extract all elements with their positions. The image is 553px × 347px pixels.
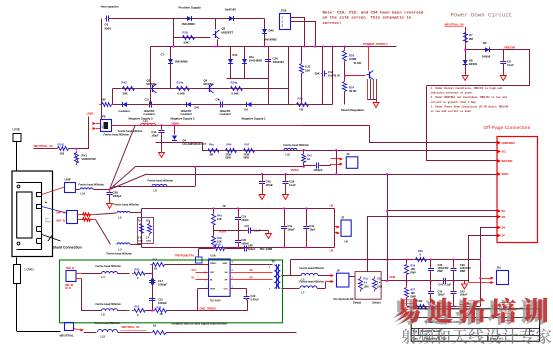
svg-text:U6: U6 [345,240,349,244]
svg-text:Shunt Connection: Shunt Connection [53,246,82,250]
svg-text:100nF: 100nF [460,294,468,297]
svg-text:LINE: LINE [13,128,21,132]
svg-text:GND: GND [223,263,228,265]
svg-text:Ferrite bead 600ohm: Ferrite bead 600ohm [300,280,325,283]
svg-text:LINE: LINE [87,112,94,116]
svg-text:25K: 25K [315,72,320,76]
svg-text:DNP: DNP [460,270,466,273]
svg-text:is low and current is back: is low and current is back [431,109,472,113]
svg-text:NEUTRAL: NEUTRAL [60,334,74,338]
svg-text:D4: D4 [245,108,249,112]
svg-text:1. Under Normal Conditions, MD: 1. Under Normal Conditions, MD8/D# is hi… [431,86,503,90]
svg-text:0.1uF: 0.1uF [289,183,296,187]
svg-text:Negative Supply 3: Negative Supply 3 [129,116,154,120]
svg-text:Isolated Sensor and signal tra: Isolated Sensor and signal transformer [172,322,229,326]
svg-text:D2: D2 [483,41,487,45]
svg-text:100pF: 100pF [288,229,296,232]
svg-text:SH: SH [250,270,254,272]
svg-text:R33: R33 [135,268,140,272]
svg-text:DNP: DNP [438,270,444,273]
svg-text:C4a: C4a [328,70,334,74]
svg-text:1N4148WS: 1N4148WS [175,60,189,64]
svg-text:C42: C42 [251,294,256,298]
svg-text:TM/DC: TM/DC [210,263,217,265]
svg-text:Ferrite bead 600ohm: Ferrite bead 600ohm [96,264,122,268]
svg-text:insulated: insulated [220,113,231,116]
svg-text:TL431: TL431 [354,61,363,65]
svg-text:R44: R44 [227,143,232,147]
svg-text:VDPA: VDPA [502,172,509,176]
svg-text:R44: R44 [153,259,158,262]
svg-text:100nF: 100nF [241,218,249,222]
svg-text:3. Under Power Down Conditions: 3. Under Power Down Conditions (M_IN dow… [431,104,509,108]
svg-text:36.3K: 36.3K [349,89,356,93]
svg-text:0.048: 0.048 [232,92,239,96]
svg-text:50K: 50K [184,41,189,45]
svg-text:Power Down Circuit: Power Down Circuit [451,12,512,19]
svg-text:BZX84: BZX84 [469,62,478,66]
svg-text:D13: D13 [233,53,238,57]
svg-text:1206: 1206 [377,287,383,289]
svg-text:C4f: C4f [245,225,249,228]
svg-text:TEST: TEST [210,288,216,290]
svg-text:POWER_SUPPLY: POWER_SUPPLY [363,42,388,46]
svg-text:1N4148WS: 1N4148WS [264,38,278,42]
svg-text:INP_N: INP_N [57,211,65,215]
svg-text:Q3: Q3 [147,79,151,83]
svg-text:R36: R36 [418,249,423,253]
svg-text:indicates presence of power: indicates presence of power [431,91,473,95]
svg-text:VDNI5: VDNI5 [172,122,180,126]
svg-text:C19: C19 [241,215,246,219]
svg-text:insulated: insulated [119,110,130,113]
svg-text:NEUTRAL_IN: NEUTRAL_IN [445,23,464,27]
svg-text:D44: D44 [195,107,200,110]
svg-text:Ferrite bead 600ohm: Ferrite bead 600ohm [107,252,133,256]
svg-text:7K: 7K [223,205,226,208]
svg-text:R2b: R2b [146,221,151,223]
svg-text:VCC: VCC [224,288,229,290]
svg-text:BAV99: BAV99 [482,55,491,59]
svg-text:1K: 1K [160,313,163,316]
svg-text:OUT: OUT [210,272,215,274]
svg-text:Q4: Q4 [204,79,208,83]
svg-text:Off-Page Connectors: Off-Page Connectors [484,125,531,130]
svg-text:C39: C39 [289,180,295,184]
svg-text:Ferrite bead 600ohm: Ferrite bead 600ohm [118,130,143,133]
svg-text:Ferrite bead 600ohm: Ferrite bead 600ohm [114,203,140,207]
svg-text:Ferrite bead 600ohm: Ferrite bead 600ohm [96,302,122,306]
svg-text:7.5M: 7.5M [417,299,423,303]
svg-text:2M: 2M [469,37,474,41]
svg-text:10pF: 10pF [310,229,316,232]
svg-text:L10: L10 [286,153,291,157]
svg-text:SH: SH [502,209,506,213]
svg-text:10uF/6.3V: 10uF/6.3V [328,74,340,78]
svg-text:Positive Supply: Positive Supply [179,6,202,10]
svg-text:250V: 250V [105,27,112,31]
svg-text:R19: R19 [298,97,304,101]
svg-text:R18: R18 [183,31,189,35]
svg-text:100nF/6V: 100nF/6V [273,60,285,64]
svg-text:Note: C20, C32, and C34 have b: Note: C20, C32, and C34 have been revers… [323,11,424,16]
svg-text:OUT: OUT [192,270,197,272]
svg-text:Ferrite bead 600ohm: Ferrite bead 600ohm [148,179,174,183]
svg-text:SN: SN [502,226,506,230]
svg-text:10K: 10K [305,69,310,73]
svg-text:100pF: 100pF [248,248,256,251]
svg-text:Size: Size [413,331,418,333]
svg-text:R14a: R14a [177,81,184,85]
svg-text:SH: SH [225,272,228,274]
svg-text:1N4148WS: 1N4148WS [182,22,196,26]
svg-text:J7: J7 [341,216,345,220]
svg-text:1206: 1206 [138,241,144,243]
svg-text:100: 100 [60,152,65,156]
svg-text:J10: J10 [497,266,502,270]
svg-text:Ferrite bead 600ohm: Ferrite bead 600ohm [300,267,325,270]
svg-text:C4b: C4b [216,99,221,102]
svg-text:D4: D4 [183,139,187,143]
svg-text:UHF: UHF [65,178,71,182]
svg-text:0.47uF: 0.47uF [251,298,260,302]
svg-text:C13: C13 [145,99,150,102]
svg-text:VCM: VCM [389,275,396,279]
svg-text:GNDPWR3: GNDPWR3 [502,141,516,145]
svg-text:Ferrite bead 600ohm: Ferrite bead 600ohm [284,143,310,147]
svg-text:100pF: 100pF [151,135,159,138]
svg-text:D4a: D4a [249,55,254,59]
svg-text:INA_N: INA_N [57,219,65,223]
svg-text:Negative Supply 1: Negative Supply 1 [242,116,267,120]
svg-text:R35: R35 [135,305,140,309]
svg-text:R36: R36 [157,307,162,310]
svg-text:Per Optional 2W: Per Optional 2W [334,297,355,301]
svg-text:4mm capacitor: 4mm capacitor [101,5,119,9]
svg-text:INN_N: INN_N [66,266,74,270]
svg-text:Date:: Date: [413,338,419,341]
svg-text:R1a: R1a [364,278,369,281]
svg-text:NC/DNI: NC/DNI [204,82,213,86]
svg-text:on the silk screen. This schem: on the silk screen. This schematic is [323,16,412,21]
svg-text:Shunt Regulator: Shunt Regulator [341,108,365,112]
svg-text:R42: R42 [307,154,312,158]
svg-text:DNP: DNP [411,272,417,275]
svg-text:IN-: IN- [210,280,213,282]
svg-text:C17: C17 [158,279,163,283]
svg-text:Default: Default [373,302,381,305]
svg-text:SCL: SCL [502,150,508,154]
svg-text:30K: 30K [123,92,128,96]
svg-text:10K: 10K [217,217,222,221]
svg-text:1N4148WS: 1N4148WS [249,59,263,63]
svg-text:L14: L14 [81,192,86,196]
svg-text:10uF/16V: 10uF/16V [225,8,237,12]
svg-text:C38: C38 [113,191,119,195]
svg-text:GND_TRNSD: GND_TRNSD [200,306,216,310]
svg-text:3M: 3M [210,153,213,156]
svg-text:1K: 1K [153,324,156,328]
svg-text:R4a: R4a [217,214,222,218]
svg-text:100nF: 100nF [438,294,446,297]
svg-text:NEUTRAL_IN: NEUTRAL_IN [34,144,53,148]
svg-text:C40: C40 [266,180,272,184]
svg-text:IN: IN [192,278,195,280]
svg-text:LOAD: LOAD [25,268,35,272]
svg-text:NC/DNI: NC/DNI [147,82,156,86]
svg-text:1000pF: 1000pF [314,168,323,172]
svg-text:SP: SP [502,234,506,238]
svg-text:U1A: U1A [211,254,216,258]
svg-text:R47: R47 [245,143,250,147]
svg-text:1K: 1K [307,157,310,161]
svg-text:D40: D40 [269,29,275,33]
svg-text:C20: C20 [241,238,246,242]
svg-text:Negative Supply 2: Negative Supply 2 [171,116,196,120]
svg-text:C8: C8 [507,60,511,64]
svg-text:C7: C7 [161,53,165,57]
svg-text:R43: R43 [122,81,128,85]
svg-text:+: + [45,200,48,206]
svg-text:0.1uF: 0.1uF [445,284,452,287]
svg-text:Ferrite bead 600ohm: Ferrite bead 600ohm [79,183,105,187]
svg-text:J700: J700 [281,9,287,13]
svg-text:Ferrite bead 600ohm: Ferrite bead 600ohm [95,321,121,325]
svg-text:C41: C41 [439,284,444,287]
svg-text:0805: 0805 [244,156,250,159]
svg-text:306: 306 [102,99,107,102]
svg-text:L12: L12 [101,335,106,339]
svg-text:VREGIN: VREGIN [504,46,515,50]
svg-text:TP6TPGND TP5: TP6TPGND TP5 [175,254,195,258]
svg-text:DNP: DNP [411,296,417,299]
svg-text:SP: SP [250,278,254,280]
svg-text:L11: L11 [144,120,149,123]
svg-text:R2a: R2a [138,221,143,223]
svg-text:1206: 1206 [364,287,370,289]
svg-text:1K: 1K [154,267,157,271]
svg-text:1000pF: 1000pF [113,194,122,198]
svg-text:U8: U8 [330,204,334,208]
svg-text:HS: HS [300,108,304,112]
svg-text:0805: 0805 [226,156,232,159]
svg-text:correct!: correct! [323,21,342,26]
svg-text:R4a: R4a [209,143,214,147]
svg-text:IN_N: IN_N [65,287,71,290]
svg-text:470uF: 470uF [266,183,274,187]
svg-text:Default: Default [353,302,361,305]
svg-text:R34a: R34a [231,81,238,85]
svg-text:1206: 1206 [146,241,152,243]
svg-text:1000pF: 1000pF [158,301,167,305]
svg-text:VDSA: VDSA [291,168,300,172]
svg-text:MOSFET: MOSFET [222,31,234,35]
svg-text:R4B: R4B [216,244,221,247]
svg-text:T5: T5 [272,260,276,264]
svg-text:VARISTOR: VARISTOR [82,157,96,161]
svg-text:2. Under NEUTRAL not Countdown: 2. Under NEUTRAL not Countdown, MD8/D# i… [431,95,508,99]
svg-text:J4: J4 [346,152,350,156]
svg-text:NEUTRAL_IN: NEUTRAL_IN [122,325,140,329]
svg-text:Ferrite bead 600ohm: Ferrite bead 600ohm [104,133,130,137]
svg-text:SN: SN [502,215,506,219]
svg-text:R141: R141 [58,143,65,147]
svg-text:R4b: R4b [217,236,222,240]
svg-text:0.1uF: 0.1uF [507,63,514,67]
svg-text:U8: U8 [330,249,334,253]
svg-text:C15: C15 [158,298,163,302]
svg-text:TBL=108M: TBL=108M [260,248,273,251]
svg-text:current is greater than 1 Amp: current is greater than 1 Amp [431,100,477,104]
svg-text:0.048: 0.048 [178,92,185,96]
svg-text:TNY266P: TNY266P [210,299,222,303]
svg-text:1000pF: 1000pF [158,283,167,287]
svg-text:SDO/DIO: SDO/DIO [502,159,513,163]
svg-text:C36: C36 [273,57,279,61]
svg-text:D6: D6 [469,59,473,63]
svg-text:Ohm: Ohm [45,220,52,224]
